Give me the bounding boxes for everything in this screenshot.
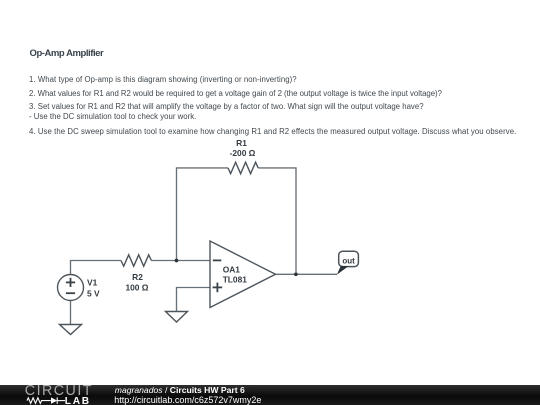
svg-text:OA1: OA1 bbox=[223, 265, 241, 275]
svg-text:V1: V1 bbox=[87, 278, 98, 288]
svg-text:out: out bbox=[342, 257, 355, 266]
svg-text:100 Ω: 100 Ω bbox=[125, 283, 148, 293]
svg-text:-200 Ω: -200 Ω bbox=[230, 148, 256, 158]
svg-text:TL081: TL081 bbox=[223, 274, 248, 284]
svg-text:5 V: 5 V bbox=[87, 289, 100, 299]
svg-text:R2: R2 bbox=[132, 272, 143, 282]
svg-text:R1: R1 bbox=[236, 138, 247, 148]
